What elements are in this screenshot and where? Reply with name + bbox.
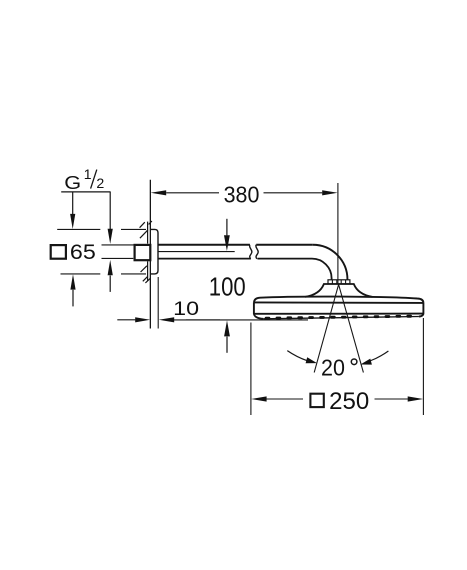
65 bottom extension line [61,273,147,275]
dimension 380 line [166,192,322,194]
pipe break squiggle left [249,245,251,259]
380 right arrowhead [322,190,338,195]
ball joint thread band [328,280,350,284]
svg-text:65: 65 [70,240,96,264]
label G 1/2 [64,166,104,193]
250 right arrowhead [408,396,424,401]
square symbol of 65 [51,245,66,259]
arm elbow outer curve [313,245,348,280]
angle right leg [339,285,364,373]
flange face extension line [157,277,159,329]
wall flange (escutcheon) [150,229,158,274]
shower head rim line [254,301,423,304]
dimension 250 left extension line [250,323,252,416]
G 1/2 leader vertical with down arrow to pipe top [109,192,111,229]
250 left arrowhead [251,396,267,401]
degree symbol [351,359,357,365]
svg-text:20: 20 [321,354,345,380]
wall face extension line [149,180,151,329]
arm centerline reference (100 dim top reference) [158,251,235,253]
svg-text:1: 1 [84,166,92,182]
shower head top outline [254,297,423,303]
arm elbow inner curve [312,259,332,280]
nozzle dots [265,315,412,320]
100 lower reference line [186,319,220,321]
svg-text:G: G [64,173,81,193]
square symbol of 250 [310,394,323,407]
shower arm pipe top line [158,244,313,246]
angle left leg [314,285,338,373]
shower head right edge [419,303,424,317]
wall hatch strokes lower [141,266,151,283]
dimension 10 right arrow with long tail [174,319,308,321]
shower head left edge [254,302,263,318]
fraction slash of G 1/2 [91,170,97,189]
pipe break squiggle right [256,245,258,259]
svg-text:10: 10 [173,298,199,320]
dimension 250 right extension line [422,318,424,415]
dimension 10 left arrow [117,319,135,321]
shower head bottom edge line [254,313,424,315]
svg-text:100: 100 [209,273,246,301]
shower arm pipe bottom line [158,258,312,260]
svg-text:250: 250 [329,389,369,415]
dimension 250 line [266,398,408,400]
380 left arrowhead [151,190,167,195]
spray face line [263,317,419,319]
dimension 100 lower arrow [226,337,228,353]
pipe top extension line (target of G arrow) [102,244,140,246]
G 1/2 up arrow to pipe bottom [109,276,111,292]
angle right arc arrow [370,351,389,361]
65 top extension line [57,228,146,230]
head center extension line [337,183,339,284]
concealed thread block [135,245,151,260]
svg-text:380: 380 [224,181,260,207]
wall hatch strokes upper [140,221,152,238]
thread band ticks [332,280,345,284]
angle left arc arrow [287,351,307,361]
head mound [305,284,372,297]
G 1/2 leader underline [61,191,110,193]
wall hatch boundary line lower [147,261,149,280]
svg-text:2: 2 [96,175,104,191]
65 up arrow [72,290,74,307]
wall hatch boundary line upper [147,222,149,244]
pipe bottom extension line (target of G arrow) [102,257,134,259]
65 down arrow [72,192,74,215]
dimension 100 upper arrow [226,219,228,236]
